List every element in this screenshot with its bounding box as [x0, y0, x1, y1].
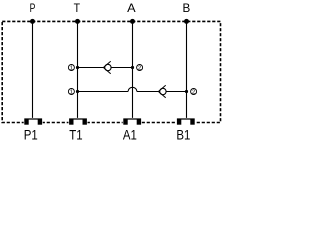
wire B vertical — [186, 21, 188, 118]
node B top junction — [184, 19, 189, 24]
node B lower junction — [185, 90, 188, 93]
svg-text:A1: A1 — [123, 127, 137, 142]
svg-text:P: P — [30, 3, 36, 16]
valve body dashed enclosure — [2, 21, 220, 122]
port P1 pad — [24, 118, 43, 125]
wire valve V1 to A — [111, 67, 133, 69]
pin marker 1 upper — [68, 65, 74, 72]
node A upper junction — [131, 66, 134, 69]
svg-text:1: 1 — [70, 90, 73, 96]
wire upper branch T to valve V1 — [78, 67, 104, 69]
check valve V1 — [103, 61, 111, 74]
wire hop to valve V2 — [137, 91, 159, 93]
node A top junction — [130, 19, 135, 24]
wire P vertical — [32, 21, 34, 118]
svg-text:2: 2 — [138, 66, 141, 72]
svg-text:B1: B1 — [176, 127, 190, 142]
port A1 pad — [123, 118, 142, 125]
wire T vertical — [77, 21, 79, 118]
wire valve V2 to B — [166, 91, 187, 93]
check valve V2 — [158, 85, 166, 98]
pin marker 1 lower — [68, 89, 74, 96]
node T lower junction — [76, 90, 79, 93]
svg-text:1: 1 — [70, 66, 73, 72]
node T top junction — [75, 19, 80, 24]
svg-text:A: A — [127, 1, 136, 15]
node T upper junction — [76, 66, 79, 69]
wire hop over A line — [128, 87, 137, 91]
port T1 pad — [69, 118, 88, 125]
pin marker 2 lower — [191, 89, 197, 96]
node P top junction — [30, 19, 35, 24]
pin marker 2 upper — [137, 65, 143, 72]
port B1 pad — [176, 118, 195, 125]
wire A vertical — [132, 21, 134, 118]
wire lower branch T to hop — [78, 91, 129, 93]
svg-text:T1: T1 — [69, 127, 82, 142]
svg-text:T: T — [74, 2, 81, 15]
svg-text:B: B — [183, 1, 191, 15]
svg-text:2: 2 — [192, 90, 195, 96]
svg-text:P1: P1 — [24, 127, 38, 142]
